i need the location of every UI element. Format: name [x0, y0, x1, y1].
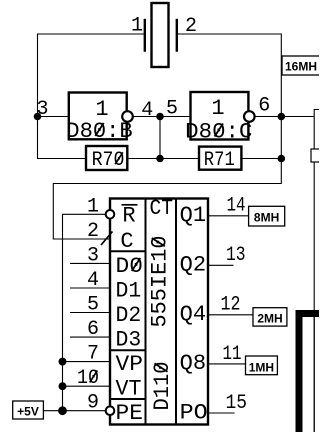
svg-text:Q4: Q4	[180, 302, 207, 327]
svg-text:D80:B: D80:B	[66, 119, 132, 144]
svg-text:Q8: Q8	[180, 351, 207, 376]
svg-text:2MH: 2MH	[257, 312, 282, 326]
wire right component edge	[314, 110, 319, 432]
D110 row divider under C	[110, 250, 146, 252]
wire Q2 pin13 stub	[208, 264, 234, 266]
wire R71 right	[241, 158, 281, 160]
crystal right plate	[176, 19, 178, 52]
power label +5V box	[13, 401, 44, 419]
svg-text:C: C	[120, 229, 133, 254]
D110 R overbar	[122, 204, 138, 206]
wire Q8 pin11	[208, 363, 246, 365]
thick highlight box corner	[299, 314, 320, 432]
D80:C output bubble	[244, 111, 255, 122]
svg-text:5: 5	[166, 98, 178, 121]
junction pin3	[34, 113, 42, 121]
resistor R70 box	[86, 146, 127, 170]
svg-text:5: 5	[87, 294, 99, 317]
thin line over thick box	[313, 310, 315, 432]
svg-text:14: 14	[227, 195, 246, 218]
counter D110 outer box	[110, 199, 208, 425]
svg-text:15: 15	[226, 392, 248, 415]
wire pin9 PE	[43, 410, 105, 412]
resistor R71 box	[199, 147, 241, 170]
net label 8MH box	[249, 206, 285, 226]
svg-text:555IE10: 555IE10	[147, 236, 172, 328]
inverter D80:C box	[191, 92, 249, 140]
svg-text:D80:C: D80:C	[185, 120, 252, 145]
junction node45 top	[156, 113, 164, 121]
crystal left plate	[144, 19, 146, 52]
svg-text:D0: D0	[116, 254, 143, 279]
wire gate C output to node 6	[255, 116, 314, 118]
wire +5V bus	[63, 214, 106, 410]
junction VP bus	[59, 358, 67, 366]
svg-text:1MH: 1MH	[249, 361, 274, 375]
wire pin7 VP	[63, 361, 111, 363]
svg-text:R71: R71	[204, 149, 235, 172]
wire crystal pin1 left	[38, 34, 145, 159]
wire gate B input	[38, 116, 69, 118]
wire D1 stub	[70, 287, 110, 289]
svg-text:1: 1	[211, 96, 224, 121]
svg-text:D1: D1	[116, 279, 142, 304]
svg-text:11: 11	[223, 343, 242, 366]
svg-text:2: 2	[185, 15, 197, 38]
wire Q4 pin12	[208, 314, 253, 316]
svg-text:R70: R70	[92, 149, 125, 172]
svg-text:Q1: Q1	[180, 203, 207, 228]
wire R70 right	[127, 158, 199, 160]
svg-text:D3: D3	[116, 328, 142, 353]
svg-text:16MH: 16MH	[285, 60, 317, 74]
D110 row divider under VT	[110, 398, 146, 400]
svg-text:R: R	[122, 203, 135, 228]
junction VT bus	[59, 382, 67, 390]
svg-text:VT: VT	[116, 377, 142, 402]
svg-text:1: 1	[87, 195, 99, 218]
svg-text:2: 2	[87, 220, 99, 243]
net label 2MH box	[253, 308, 287, 326]
svg-text:PO: PO	[180, 401, 208, 426]
svg-text:7: 7	[87, 343, 99, 366]
wire D3 stub	[70, 336, 110, 338]
svg-text:12: 12	[221, 294, 241, 317]
pin 2 C dynamic slash	[101, 232, 113, 246]
inverter D80:B box	[69, 93, 127, 140]
junction node45 bottom	[156, 155, 164, 163]
svg-text:4: 4	[87, 269, 99, 292]
wire Q1 pin14	[208, 215, 249, 217]
wire D2 stub	[70, 312, 110, 314]
svg-text:1: 1	[131, 15, 143, 38]
D110 divider right column	[175, 199, 177, 425]
crystal B1 body	[152, 3, 169, 67]
svg-text:+5V: +5V	[17, 405, 39, 419]
junction R71 right	[278, 155, 286, 163]
svg-text:PE: PE	[116, 401, 143, 426]
net label 16MH box	[282, 56, 320, 75]
wire node45 vertical	[159, 117, 161, 159]
wire pin10 VT	[63, 385, 111, 387]
junction PE bus	[58, 406, 67, 415]
wire PO pin15 stub	[208, 412, 235, 414]
pin 9 PE bubble	[106, 406, 115, 415]
svg-text:D2: D2	[116, 303, 142, 328]
svg-text:Q2: Q2	[180, 252, 207, 277]
D80:B output bubble	[122, 111, 133, 122]
D110 divider left column	[145, 199, 147, 425]
wire crystal pin2 right	[53, 34, 281, 239]
svg-text:CT: CT	[150, 196, 174, 221]
svg-text:4: 4	[141, 99, 153, 122]
svg-text:3: 3	[87, 244, 99, 267]
net label 1MH box	[246, 356, 278, 375]
svg-text:10: 10	[77, 367, 99, 390]
junction node6	[278, 113, 286, 121]
small box right edge	[311, 149, 320, 162]
wire gate B output to gate C input	[133, 116, 190, 118]
svg-text:9: 9	[87, 392, 99, 415]
svg-text:8MH: 8MH	[254, 211, 279, 225]
svg-text:VP: VP	[116, 352, 143, 377]
D110 row divider under D3	[110, 349, 146, 351]
svg-text:6: 6	[258, 95, 270, 118]
svg-text:13: 13	[226, 244, 246, 267]
wire D0 stub	[70, 262, 110, 264]
svg-text:6: 6	[87, 318, 99, 341]
pin 1 R bubble	[106, 210, 115, 219]
